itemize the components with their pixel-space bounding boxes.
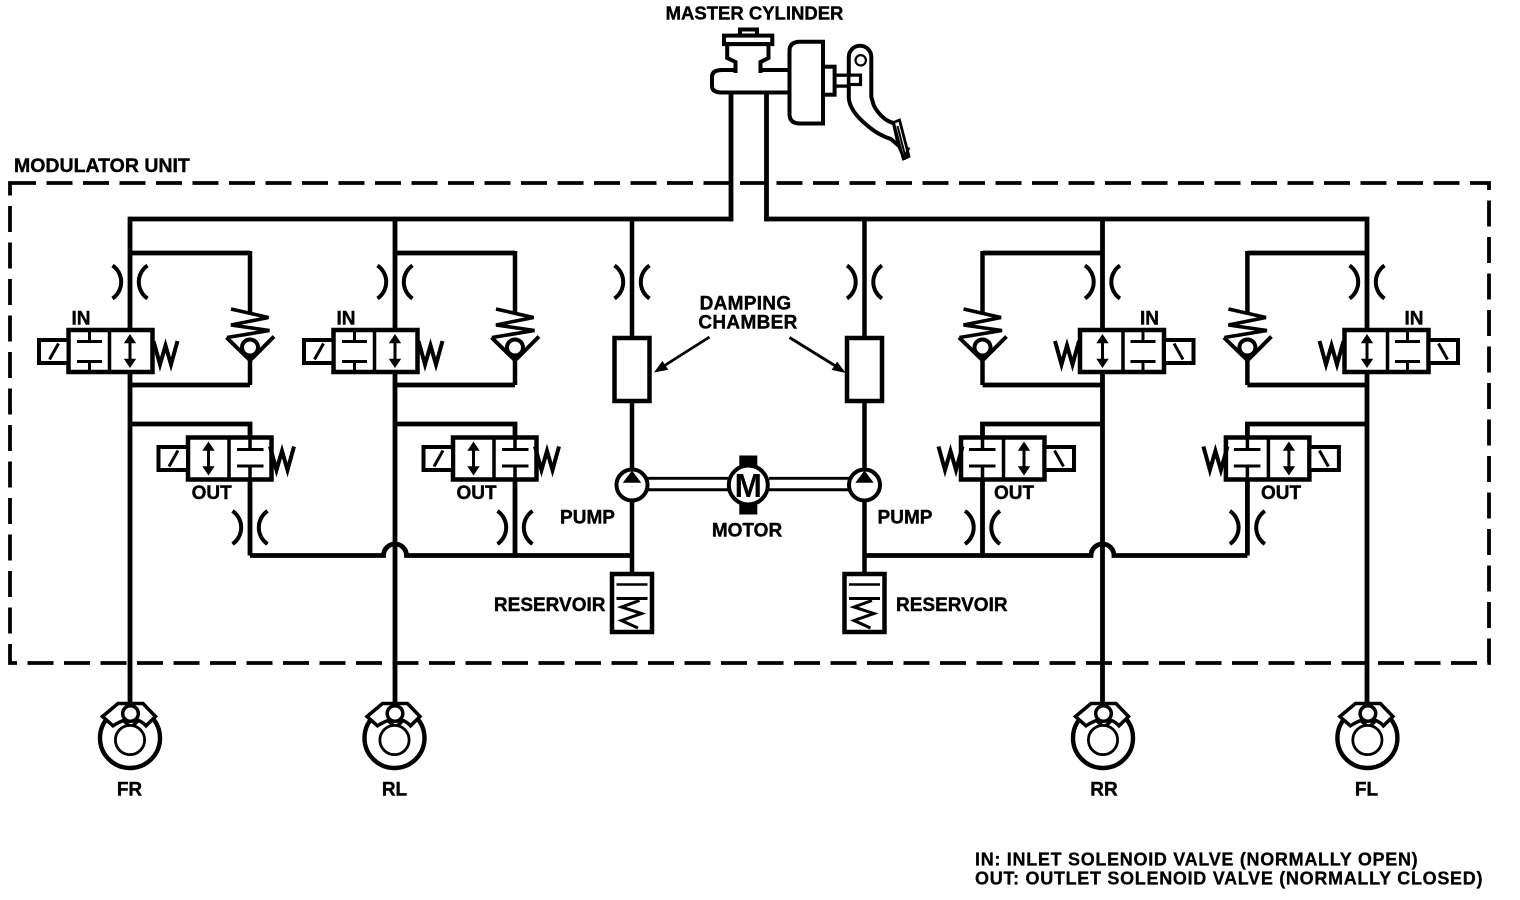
svg-text:MOTOR: MOTOR	[712, 521, 783, 542]
svg-text:IN: IN	[1140, 309, 1159, 330]
svg-text:OUT: OUT	[1261, 483, 1302, 504]
svg-text:PUMP: PUMP	[560, 508, 615, 529]
svg-text:RESERVOIR: RESERVOIR	[896, 595, 1008, 616]
svg-text:M: M	[735, 467, 763, 504]
svg-text:MODULATOR UNIT: MODULATOR UNIT	[14, 155, 190, 177]
svg-text:MASTER CYLINDER: MASTER CYLINDER	[666, 3, 844, 24]
svg-text:DAMPING: DAMPING	[700, 294, 792, 315]
svg-text:OUT: OUTLET SOLENOID VALVE (NO: OUT: OUTLET SOLENOID VALVE (NORMALLY CLO…	[975, 869, 1483, 889]
svg-text:IN: IN	[337, 309, 356, 330]
svg-text:RL: RL	[382, 780, 408, 801]
svg-text:OUT: OUT	[192, 483, 233, 504]
svg-text:PUMP: PUMP	[878, 508, 933, 529]
svg-text:FR: FR	[117, 780, 143, 801]
svg-text:RR: RR	[1090, 780, 1118, 801]
svg-text:IN: INLET SOLENOID VALVE (NORM: IN: INLET SOLENOID VALVE (NORMALLY OPEN)	[975, 850, 1418, 870]
svg-text:RESERVOIR: RESERVOIR	[494, 595, 606, 616]
svg-text:OUT: OUT	[994, 483, 1035, 504]
svg-text:OUT: OUT	[456, 483, 497, 504]
svg-text:FL: FL	[1355, 780, 1379, 801]
svg-text:IN: IN	[72, 309, 91, 330]
svg-text:IN: IN	[1405, 309, 1424, 330]
svg-text:CHAMBER: CHAMBER	[698, 313, 797, 334]
